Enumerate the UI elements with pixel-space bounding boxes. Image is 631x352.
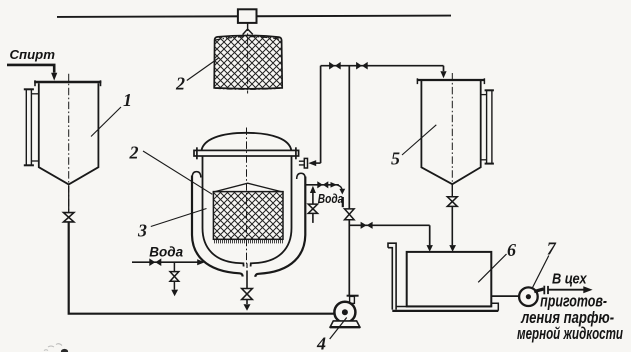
svg-text:приготов-: приготов- <box>540 292 607 310</box>
tank 1 sight glass <box>25 89 27 166</box>
water line left <box>132 261 198 263</box>
pump 7 <box>491 295 519 297</box>
tank 5 centerline <box>451 73 453 196</box>
vessel top nozzle (right) <box>299 161 304 165</box>
vessel flange bar <box>194 150 299 156</box>
svg-text:2: 2 <box>175 74 185 94</box>
valve (overflow) <box>317 181 328 188</box>
basket 2 (hanging, crosshatched) <box>214 35 282 88</box>
discharge arrow <box>548 289 585 291</box>
svg-text:Вода: Вода <box>149 243 183 259</box>
basket 2 lid seam (dash-dot) <box>215 37 283 90</box>
basket 2 centerline <box>247 24 249 94</box>
svg-text:5: 5 <box>391 148 400 168</box>
valve (jacket water inlet) <box>308 204 317 213</box>
drain hook with down arrow <box>338 185 343 190</box>
monorail <box>57 16 451 17</box>
tank 1 centerline <box>68 74 70 212</box>
wire hanger <box>243 23 253 35</box>
wire nozzle to top line <box>320 66 322 163</box>
tank 5 drain <box>451 184 453 196</box>
valve (vessel drain) <box>242 289 253 300</box>
basket 3 bottom fringe <box>215 239 283 243</box>
up arrow into jacket line <box>312 191 314 223</box>
svg-text:2: 2 <box>129 143 139 163</box>
vessel drain <box>246 263 248 268</box>
svg-text:1: 1 <box>123 90 132 110</box>
wire into tank 5 <box>443 66 445 72</box>
jacket left wall <box>192 176 243 277</box>
svg-text:мерной жидкости: мерной жидкости <box>517 325 623 343</box>
basket 3 conical top <box>213 183 284 192</box>
pump 4 <box>347 295 359 297</box>
vessel body (inner wall) <box>203 156 292 267</box>
wire to bottom header <box>69 222 335 314</box>
valve (tank 5 drain) <box>447 197 457 207</box>
tray slab <box>396 306 491 308</box>
tank 1 flange <box>34 81 101 83</box>
trolley <box>238 9 257 23</box>
valve (branch) <box>361 222 373 229</box>
valve (top line right) <box>356 62 368 70</box>
vessel dome <box>202 133 292 151</box>
tank 6 <box>407 252 492 307</box>
valve (left drain) <box>170 272 179 282</box>
jacket water overflow line <box>305 184 339 186</box>
jacket right rim <box>297 173 306 179</box>
tank 1 drain pipe <box>68 186 70 212</box>
tee branch down <box>173 262 175 271</box>
tank 1 body <box>39 83 99 184</box>
pump 4 riser <box>348 66 350 296</box>
valve (water left) <box>149 258 161 266</box>
top line <box>321 65 444 67</box>
spirit pipe with down arrow <box>7 65 54 73</box>
tank 5 sight glass <box>486 90 488 164</box>
svg-text:6: 6 <box>507 240 516 260</box>
svg-text:Спирт: Спирт <box>10 47 56 62</box>
jacket left rim <box>192 172 201 178</box>
svg-text:4: 4 <box>316 334 326 352</box>
svg-text:3: 3 <box>137 221 147 241</box>
jacket right wall <box>255 177 305 277</box>
svg-text:В цех: В цех <box>552 272 588 288</box>
drain stub <box>342 197 344 207</box>
tank 6 tray spout <box>388 243 396 309</box>
caption fragment bottom left <box>61 349 68 352</box>
valve (tank 1 drain) <box>64 213 74 222</box>
svg-text:Вода: Вода <box>318 191 344 206</box>
basket 3 (crosshatched) <box>213 192 283 240</box>
vessel centerline <box>246 128 248 265</box>
valve (riser) <box>345 209 355 220</box>
valve (top line left) <box>329 62 341 70</box>
arrow into jacket <box>197 259 205 265</box>
flow arrow right <box>331 182 338 188</box>
tank 5 flange <box>417 79 485 81</box>
branch to tank 6 <box>349 224 429 226</box>
tank 5 body <box>421 81 480 184</box>
